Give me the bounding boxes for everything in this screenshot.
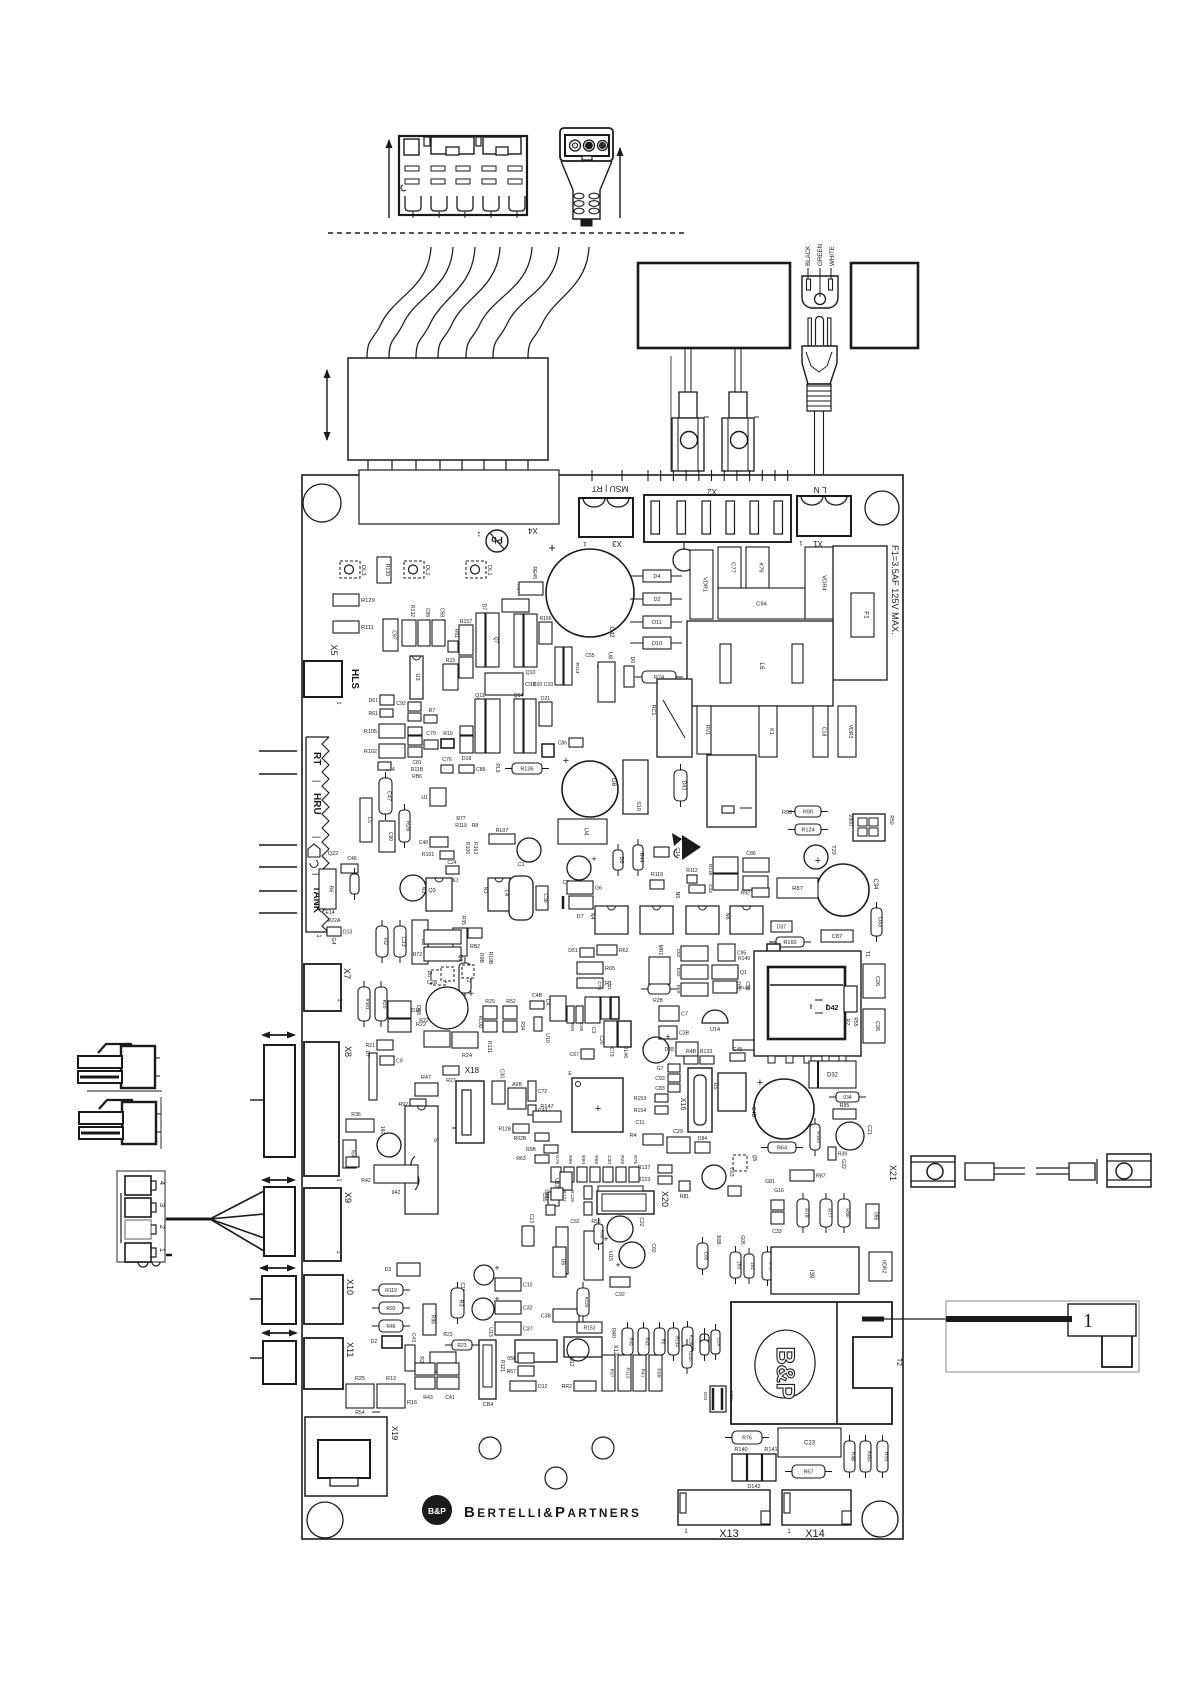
svg-text:R124: R124 — [801, 828, 814, 834]
svg-text:C31: C31 — [606, 981, 612, 990]
connector X13 — [678, 1490, 770, 1540]
capacitor C22 — [603, 1216, 644, 1244]
svg-text:R40: R40 — [610, 1328, 616, 1338]
resistor R82 — [468, 928, 482, 950]
capacitor C60 — [615, 1242, 656, 1270]
mounting hole top-right — [865, 491, 899, 525]
diode D142 — [732, 1454, 776, 1490]
svg-text:R62: R62 — [619, 948, 629, 954]
IC N3 — [482, 878, 510, 911]
svg-text:|: | — [312, 836, 322, 838]
relay K2 — [707, 755, 756, 827]
resistor R77 — [820, 1193, 832, 1233]
resistor R101e — [358, 981, 370, 1027]
resistor R71 — [700, 1328, 711, 1360]
resistor R49 — [622, 1322, 634, 1361]
diode D10 — [630, 637, 682, 649]
inductor L6 — [687, 621, 833, 706]
svg-text:R23: R23 — [457, 1343, 466, 1349]
svg-text:RT: RT — [311, 752, 322, 765]
capacitor C47 — [379, 772, 392, 820]
svg-text:C70: C70 — [426, 731, 436, 737]
svg-text:C88: C88 — [424, 608, 430, 617]
capacitor C85 — [697, 1237, 709, 1275]
capacitor C18 — [813, 706, 828, 757]
transistor Q7b — [486, 613, 499, 667]
svg-text:151: 151 — [749, 1262, 755, 1270]
resistor R57 — [785, 1465, 832, 1478]
svg-text:RB6: RB6 — [412, 774, 422, 780]
svg-text:R114: R114 — [574, 662, 580, 673]
diode D84 — [695, 1136, 710, 1153]
resistor R111 — [333, 621, 374, 633]
svg-text:C18: C18 — [821, 727, 827, 737]
svg-text:R131: R131 — [486, 1041, 492, 1053]
IC U3 — [410, 656, 423, 699]
X6 external wires — [259, 751, 297, 913]
label C05 B05 — [715, 1235, 745, 1245]
IC U6 — [553, 1247, 566, 1277]
svg-text:R85: R85 — [840, 1103, 850, 1109]
resistor R19 — [441, 731, 454, 748]
capacitor C2 — [562, 854, 596, 886]
svg-text:R9B: R9B — [478, 953, 484, 963]
svg-text:D20 C10: D20 C10 — [533, 682, 554, 688]
diode D18c — [411, 1008, 429, 1024]
diode D72 — [762, 1246, 774, 1286]
resistor R44 — [633, 839, 644, 876]
capacitor C6 — [567, 881, 602, 894]
resistor R60 — [567, 1006, 575, 1032]
capacitor C74 — [378, 762, 395, 773]
resistor R148b — [844, 1017, 858, 1026]
svg-text:VDR1: VDR1 — [702, 577, 708, 592]
IC U15 — [543, 1188, 613, 1280]
svg-text:X2: X2 — [707, 487, 717, 496]
resistor R35b — [413, 930, 461, 961]
capacitor C48c — [530, 993, 550, 1043]
label MSU | RT — [592, 484, 629, 494]
transformer T2 — [731, 1302, 892, 1424]
Pb-free mark — [486, 530, 508, 552]
svg-text:RL9: RL9 — [494, 763, 500, 772]
svg-text:C73: C73 — [608, 1047, 614, 1056]
DIP switch V800 — [847, 814, 894, 841]
diode D24 — [711, 1324, 722, 1360]
svg-text:R9B: R9B — [656, 1368, 662, 1377]
resistor R147 — [533, 1104, 561, 1122]
inductor L5 — [360, 798, 372, 842]
capacitor C48 (electrolytic) — [750, 1077, 814, 1139]
svg-text:UDR2: UDR2 — [881, 1260, 887, 1274]
resistor A98 — [508, 1082, 526, 1109]
transistor Q11 — [475, 693, 485, 753]
svg-text:R94: R94 — [519, 1021, 525, 1030]
transistor Q14 — [514, 693, 524, 753]
svg-text:C3B: C3B — [541, 1314, 552, 1320]
svg-text:R87: R87 — [792, 886, 803, 892]
connector block pins — [368, 460, 528, 474]
svg-text:D24A: D24A — [688, 1351, 693, 1362]
svg-text:C41: C41 — [445, 1395, 455, 1401]
ignition electrode connector (1) — [946, 1301, 1139, 1372]
svg-text:B&P: B&P — [771, 1347, 799, 1400]
svg-text:R61: R61 — [368, 711, 378, 717]
label T2 — [895, 1358, 902, 1366]
IC U1 — [421, 788, 446, 806]
resistor R23 — [443, 1332, 479, 1350]
svg-text:R8: R8 — [472, 823, 479, 829]
svg-text:3: 3 — [158, 1203, 167, 1207]
capacitor C34b — [707, 874, 738, 893]
svg-text:1: 1 — [1083, 1310, 1093, 1332]
resistor R28b — [641, 984, 677, 1004]
label D20 C10 — [533, 682, 554, 688]
svg-text:R2: R2 — [844, 1019, 850, 1026]
resistor R96b — [343, 1140, 356, 1168]
svg-text:U6: U6 — [560, 1259, 566, 1266]
X11 external housing — [250, 1330, 298, 1385]
svg-text:R90: R90 — [782, 810, 792, 816]
svg-text:T23: T23 — [830, 845, 836, 854]
diode D21 — [539, 696, 552, 726]
svg-text:R46: R46 — [386, 1324, 395, 1330]
IC N4 — [589, 906, 628, 934]
svg-text:C52: C52 — [675, 949, 681, 958]
resistor R5 — [654, 1322, 666, 1361]
svg-text:R21: R21 — [365, 1043, 375, 1049]
svg-text:G05: G05 — [739, 1235, 745, 1245]
diode D23A — [703, 1386, 734, 1412]
connector X20 — [597, 1186, 670, 1214]
transistor Q5 — [733, 1155, 757, 1171]
transistor Q3 — [400, 875, 436, 901]
svg-text:C34: C34 — [872, 878, 878, 890]
svg-text:G7: G7 — [657, 1066, 664, 1072]
svg-text:D6: D6 — [618, 856, 624, 863]
svg-text:R22: R22 — [416, 1022, 426, 1028]
capacitor C4 — [544, 996, 566, 1021]
relay K1 — [759, 706, 777, 757]
svg-text:A9B: A9B — [512, 1082, 522, 1088]
IC U7 — [623, 760, 648, 814]
svg-text:R132: R132 — [409, 605, 415, 617]
connector block X4 (side view) — [348, 358, 548, 460]
IC U5 — [712, 1073, 746, 1111]
svg-text:K76: K76 — [758, 562, 764, 572]
svg-text:R130: R130 — [384, 564, 390, 577]
svg-text:R35: R35 — [460, 916, 466, 925]
circle hole H4 — [545, 1467, 567, 1489]
label R98 R19B — [478, 952, 493, 965]
svg-text:R105: R105 — [364, 729, 377, 735]
resistor R4 — [629, 1133, 663, 1145]
svg-text:C63: C63 — [728, 1167, 734, 1176]
svg-text:D8: D8 — [426, 971, 432, 978]
svg-text:RL07: RL07 — [496, 828, 509, 834]
resistor R112 — [686, 868, 705, 893]
varistor VDR1 — [690, 550, 713, 619]
svg-text:R137: R137 — [638, 1165, 651, 1171]
resistor R2 — [376, 920, 388, 963]
svg-text:R160: R160 — [783, 940, 796, 946]
connector X16 — [679, 1068, 712, 1132]
svg-text:C72: C72 — [538, 1089, 547, 1095]
resistor R123 — [638, 1176, 672, 1184]
svg-text:R50: R50 — [888, 815, 894, 824]
diode D24A — [682, 1334, 709, 1374]
svg-text:R66: R66 — [593, 1155, 599, 1164]
diode D39 — [542, 744, 554, 757]
diode D11 — [630, 616, 682, 628]
svg-text:R76: R76 — [742, 1436, 752, 1442]
svg-text:L N: L N — [814, 485, 827, 495]
resistor RV1 — [697, 706, 711, 754]
svg-text:G81: G81 — [765, 1179, 775, 1185]
resistor R61 — [448, 629, 459, 652]
resistor R20 — [375, 981, 387, 1027]
svg-text:T2: T2 — [895, 1358, 902, 1366]
svg-text:S: S — [432, 1138, 438, 1142]
svg-text:R15: R15 — [446, 658, 456, 664]
svg-text:R136: R136 — [520, 767, 533, 773]
X9 external housing box — [264, 1187, 295, 1256]
svg-text:R39: R39 — [838, 1152, 847, 1158]
resistor R148c — [707, 857, 738, 876]
svg-text:C13: C13 — [528, 1214, 534, 1223]
capacitor C34 (electrolytic) — [815, 855, 878, 916]
svg-text:Q11: Q11 — [475, 693, 485, 699]
svg-text:C22: C22 — [638, 1217, 644, 1226]
mounting hole top-left — [303, 484, 341, 522]
capacitor C92 — [396, 701, 421, 711]
svg-text:R76: R76 — [632, 1155, 638, 1164]
svg-text:R12: R12 — [386, 1376, 396, 1382]
capacitor C95 — [712, 944, 751, 993]
connector X9 — [304, 1188, 353, 1261]
svg-text:D7: D7 — [576, 914, 583, 920]
varistor VDR3 — [838, 706, 856, 757]
resistor R150 — [730, 1246, 742, 1284]
svg-text:R148: R148 — [707, 864, 713, 876]
svg-text:R40A: R40A — [867, 1451, 872, 1462]
svg-text:C11: C11 — [635, 1120, 644, 1126]
svg-text:G75: G75 — [554, 1155, 560, 1164]
svg-text:U7: U7 — [364, 1051, 370, 1058]
mounting hole bottom-right — [862, 1501, 898, 1537]
svg-text:D51: D51 — [568, 948, 578, 954]
resistor R46b — [361, 1165, 418, 1196]
svg-text:X7: X7 — [342, 968, 352, 979]
diode D2 — [630, 593, 682, 605]
svg-text:D21: D21 — [541, 696, 550, 702]
svg-text:C92: C92 — [615, 1292, 625, 1298]
svg-text:R20: R20 — [381, 1000, 387, 1009]
svg-text:R147: R147 — [540, 1104, 553, 1110]
arrow (insertion direction, left) — [386, 139, 393, 218]
resistor R7 — [424, 708, 437, 723]
capacitor C93 — [485, 673, 536, 695]
svg-text:RV1: RV1 — [704, 725, 710, 735]
resistor R119b — [372, 1284, 410, 1296]
capacitor C19 — [459, 1282, 465, 1291]
capacitor C17 — [659, 1006, 688, 1021]
svg-text:D2: D2 — [653, 597, 660, 603]
svg-text:R43: R43 — [645, 1337, 650, 1346]
IC U12 — [553, 1172, 572, 1190]
svg-text:R4B: R4B — [686, 1049, 697, 1055]
transistor Q6 — [624, 657, 635, 687]
X8 external housing — [250, 1032, 296, 1158]
resistor R127 — [561, 1190, 575, 1202]
resistor R63 — [516, 1155, 549, 1163]
svg-text:C32: C32 — [523, 1306, 533, 1312]
svg-text:L6: L6 — [758, 662, 765, 670]
svg-text:X9: X9 — [343, 1192, 353, 1203]
svg-text:R87: R87 — [816, 1174, 826, 1180]
svg-text:RR2: RR2 — [562, 1384, 572, 1390]
capacitor C38 — [659, 1026, 690, 1039]
svg-text:R81: R81 — [680, 1194, 689, 1200]
svg-text:X8: X8 — [343, 1046, 353, 1057]
connector X4 footprint — [359, 470, 559, 524]
svg-text:X11: X11 — [345, 1342, 355, 1357]
capacitor C33b — [771, 1200, 784, 1235]
arrow (insertion direction, right) — [617, 147, 624, 218]
wire harness (7 wires) — [367, 247, 589, 358]
svg-text:R37: R37 — [609, 1369, 615, 1378]
diode D34 — [829, 1092, 866, 1102]
resistor R3 — [451, 1282, 464, 1324]
capacitor C31 — [606, 981, 619, 1019]
svg-text:R138: R138 — [689, 1335, 694, 1346]
svg-text:+: + — [757, 1077, 763, 1089]
svg-text:C4B: C4B — [532, 993, 543, 999]
resistor R76b — [725, 1431, 769, 1444]
svg-text:R111: R111 — [361, 625, 374, 631]
capacitor C9 — [380, 1056, 403, 1065]
resistor R69 — [733, 1040, 769, 1050]
svg-text:C1: C1 — [517, 862, 524, 868]
svg-text:C86: C86 — [746, 851, 756, 857]
resistor R43 — [638, 1322, 650, 1361]
svg-text:C28: C28 — [427, 980, 437, 986]
capacitor C81 — [408, 713, 421, 721]
bridge module D42 — [754, 951, 870, 1063]
svg-text:R160: R160 — [815, 1131, 821, 1143]
resistor R22g — [388, 1019, 426, 1032]
svg-text:D6: D6 — [629, 657, 635, 664]
svg-text:R23: R23 — [443, 1332, 452, 1338]
resistor R62 — [597, 945, 629, 955]
svg-text:Q3: Q3 — [428, 888, 435, 894]
svg-text:R141: R141 — [764, 1447, 777, 1453]
svg-text:X10: X10 — [345, 1279, 355, 1295]
svg-text:R101: R101 — [422, 852, 435, 858]
svg-text:R36: R36 — [351, 1112, 361, 1118]
resistor R28 — [399, 804, 411, 848]
svg-text:C83: C83 — [655, 1086, 665, 1092]
svg-text:C47: C47 — [386, 791, 392, 801]
label C20 — [598, 1035, 604, 1044]
svg-text:R24: R24 — [462, 1053, 472, 1059]
svg-text:Q9: Q9 — [457, 955, 463, 962]
svg-text:R26: R26 — [619, 1155, 625, 1164]
label X21 — [888, 1165, 898, 1181]
arrow (vertical double, block) — [324, 369, 331, 441]
svg-text:Q5: Q5 — [751, 1155, 757, 1162]
svg-text:Q14: Q14 — [514, 693, 524, 699]
capacitor C42 (electrolytic) — [546, 540, 634, 638]
svg-text:+: + — [563, 755, 569, 767]
svg-text:C9: C9 — [396, 1059, 403, 1065]
capacitor C65 — [576, 1006, 584, 1032]
IC N6 — [686, 906, 719, 934]
resistor R160b — [810, 1118, 821, 1156]
capacitor C92b — [610, 1277, 630, 1298]
svg-text:F1=3.5AF 125V MAX.: F1=3.5AF 125V MAX. — [890, 545, 900, 635]
transistor Q10 — [514, 614, 523, 667]
svg-text:BERTELLI&PARTNERS: BERTELLI&PARTNERS — [464, 1504, 641, 1521]
svg-text:C33: C33 — [400, 936, 406, 946]
svg-text:R78: R78 — [803, 1208, 809, 1217]
svg-text:C23: C23 — [804, 1441, 816, 1447]
column resistors G75..R76 — [551, 1155, 639, 1182]
resistor MR1 — [649, 945, 670, 984]
connector X18 — [452, 1066, 484, 1143]
capacitor C96 — [743, 876, 768, 890]
svg-text:K1: K1 — [768, 728, 774, 735]
svg-text:C55: C55 — [585, 653, 594, 659]
capacitor C61 — [408, 727, 422, 735]
svg-text:R55: R55 — [852, 1017, 858, 1026]
svg-text:+: + — [548, 540, 556, 555]
svg-text:C3: C3 — [590, 1027, 596, 1034]
diode D12 — [510, 1381, 548, 1391]
resistor R22 — [459, 957, 471, 999]
svg-text:R7: R7 — [429, 708, 436, 714]
capacitor C14 — [654, 847, 680, 857]
svg-text:R12B: R12B — [498, 1127, 511, 1133]
svg-text:160: 160 — [379, 1126, 385, 1135]
diode D37 — [771, 921, 792, 932]
resistor R67 — [506, 1366, 534, 1376]
capacitor C84 — [479, 1340, 496, 1408]
IC U4 — [558, 819, 607, 844]
svg-text:C29: C29 — [673, 1129, 683, 1135]
capacitor C33 — [394, 920, 406, 963]
connector X6 — [306, 737, 329, 938]
diode D18 — [460, 726, 473, 762]
resistor R47 — [415, 1075, 438, 1096]
svg-text:R61: R61 — [453, 629, 459, 638]
svg-text:C4: C4 — [544, 999, 550, 1006]
svg-text:X3: X3 — [612, 539, 622, 548]
svg-text:L5: L5 — [366, 817, 372, 823]
X9 fan-out wires — [165, 1191, 264, 1251]
svg-text:C67: C67 — [569, 1052, 579, 1058]
svg-text:R92: R92 — [740, 891, 750, 897]
diode D30 — [675, 965, 708, 979]
svg-text:R123: R123 — [638, 1177, 651, 1183]
IC N2 — [420, 878, 452, 911]
resistor R196 — [539, 616, 552, 644]
svg-text:086: 086 — [873, 1212, 879, 1221]
resistor R120 — [577, 1282, 589, 1322]
connector X5 — [304, 644, 360, 705]
svg-text:R86: R86 — [430, 1315, 436, 1324]
fuse holder box — [833, 546, 887, 680]
